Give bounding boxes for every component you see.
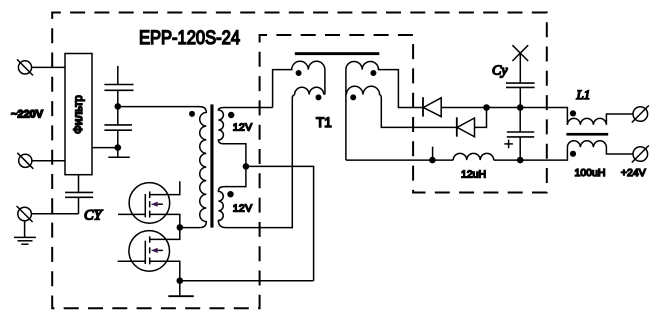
node diode junction [483,104,490,111]
capacitor divider upper C [104,66,133,107]
svg-text:EPP-120S-24: EPP-120S-24 [139,27,240,48]
core transformer TR [210,104,213,227]
wire source junction to center tap rail [180,280,314,282]
wire D2 anode up to junction [475,108,487,128]
transformer T1 winding left upper [273,61,325,107]
capacitor divider lower C [104,106,131,157]
transistor Q2 lower MOSFET [129,231,170,272]
svg-text:~220V: ~220V [11,108,44,120]
transformer T1 winding right upper [346,61,423,107]
wire filter to divider [92,147,118,149]
wire bottom rail right of inductor [494,159,521,161]
filter block Фильтр [65,54,92,175]
terminal line input [17,59,33,75]
inductor L1 lower winding [567,141,633,154]
node L1 upper polarity dot [570,110,576,116]
svg-text:12V: 12V [233,202,253,214]
node midpoint junction [177,224,184,231]
capacitor CY [65,175,93,214]
terminal output plus [632,106,649,123]
wire Q1 gate stub [118,213,145,215]
node T1 right lower polarity dot [350,94,356,100]
svg-text:Cy: Cy [492,64,508,79]
core inductor L1 [566,133,608,136]
wire earth terminal to CY [31,213,78,215]
capacitor electrolytic output [504,108,534,161]
wire Q2 gate stub [118,260,146,262]
node Cy junction [517,104,524,111]
wire bottom rail left of inductor [346,159,453,161]
transistor Q1 upper MOSFET [129,183,170,224]
svg-text:Фильтр: Фильтр [73,95,85,134]
inductor L1 upper winding [567,114,633,125]
node bus junction upper [115,103,122,110]
svg-text:12V: 12V [233,121,253,133]
node T1 right upper polarity dot [370,70,376,76]
node T1 left lower polarity dot [316,94,322,100]
wire Q2 drain to midpoint [150,228,180,240]
svg-text:CY: CY [84,208,104,224]
wire Q1 source to midpoint [150,214,180,227]
node primary polarity dot [189,111,195,117]
inductor 12uH [453,153,494,160]
diode D2 [457,117,475,137]
terminal bar divider bottom [108,156,130,158]
transformer TR secondary upper 12V [218,108,272,167]
wire Q1 drain stub [150,181,180,194]
wire top rail to L1 [520,108,567,125]
node source junction [177,277,184,284]
wire T1 center leg down [345,70,347,161]
node center tap junction [243,163,250,170]
wire center tap to ground rail [246,166,314,280]
wire neutral input to filter [32,160,65,162]
node electrolytic junction [517,157,524,164]
wire bus to primary and transformer TR primary winding [118,107,207,228]
node L1 lower polarity dot [570,151,576,157]
transformer T1 winding right lower [346,86,456,127]
diode D1 [423,97,441,116]
svg-text:12uH: 12uH [461,168,486,180]
svg-text:+24V: +24V [621,167,646,179]
node 12uH junction with stub [429,147,436,164]
wire bottom rail to L1 [520,147,567,160]
node secondary lower polarity dot [227,191,233,197]
capacitor Cy with chassis X [506,45,535,107]
wire Q2 source down [150,261,180,281]
terminal earth input [17,206,33,222]
core transformer T1 [295,52,380,55]
wire D1 anode to junction [441,107,486,109]
node T1 left upper polarity dot [296,70,302,76]
ground earth symbol [14,221,36,244]
node divider mid junction [115,144,122,151]
svg-text:L1: L1 [576,87,591,102]
terminal neutral input [17,153,33,169]
wire line input to filter [32,66,65,68]
wire top rail to Cy [487,107,521,109]
transformer T1 winding left lower [295,87,324,94]
terminal output minus [632,146,649,163]
svg-text:T1: T1 [316,115,332,130]
transformer TR secondary lower 12V [218,95,294,228]
node secondary upper polarity dot [228,112,234,118]
ground chassis below Q2 [168,281,194,297]
enclosure dashed outline [52,13,547,309]
svg-text:100uH: 100uH [575,167,606,179]
